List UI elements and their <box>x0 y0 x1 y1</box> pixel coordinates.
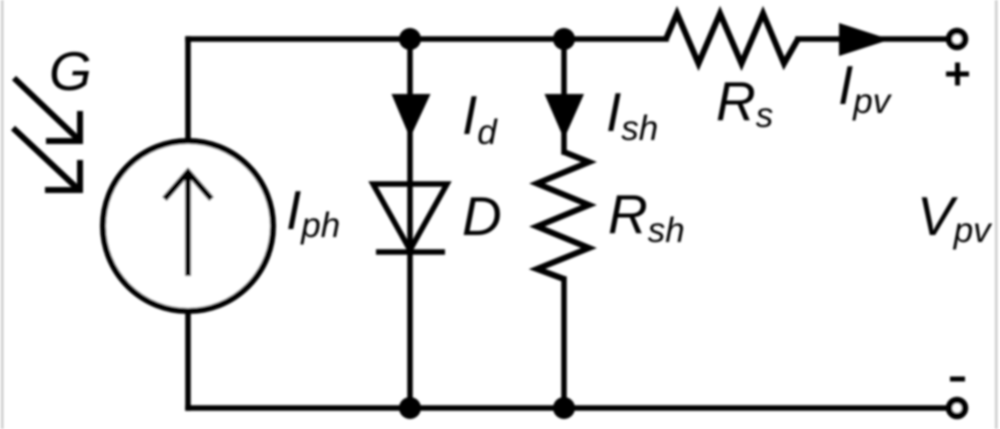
irradiance arrow 2 <box>13 128 80 190</box>
wire top right segment <box>798 36 946 42</box>
terminal negative <box>949 400 965 416</box>
current arrow Ish <box>545 94 585 139</box>
current source Iph circle <box>103 141 273 311</box>
wire shunt branch upper <box>561 39 567 152</box>
wire shunt branch lower <box>561 279 567 408</box>
wire top left segment <box>188 36 666 42</box>
terminal positive <box>949 31 965 47</box>
resistor Rsh <box>537 152 589 279</box>
diode D <box>373 184 447 252</box>
junction dot top diode node <box>399 28 421 50</box>
wire left vertical lower <box>185 311 191 408</box>
current source arrow <box>165 172 212 276</box>
resistor Rs <box>666 14 798 64</box>
current arrow Id <box>392 94 431 138</box>
irradiance arrow 1 <box>14 78 80 141</box>
svg-text:D: D <box>462 185 502 247</box>
junction dot bottom shunt node <box>553 397 575 419</box>
wire bottom <box>188 405 945 411</box>
junction dot top shunt node <box>553 28 575 50</box>
wire left vertical upper <box>185 39 191 141</box>
svg-text:G: G <box>49 40 92 102</box>
minus sign <box>950 377 965 382</box>
wire diode branch <box>407 39 413 408</box>
junction dot bottom diode node <box>399 397 421 419</box>
current arrow Ipv <box>839 23 890 56</box>
plus sign <box>946 63 969 86</box>
